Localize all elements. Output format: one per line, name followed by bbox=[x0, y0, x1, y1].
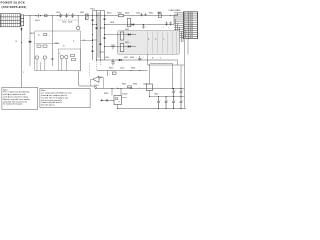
inner box bbox=[59, 49, 81, 71]
transistor Q603 bbox=[35, 56, 38, 59]
wire to bus y=40.5 bbox=[81, 40, 93, 42]
diode D601 bbox=[132, 23, 135, 25]
svg-text:liste des pièces.: liste des pièces. bbox=[41, 104, 56, 107]
resistor R630 bbox=[103, 99, 115, 101]
drops to box bottom bbox=[37, 59, 45, 70]
svg-text:+: + bbox=[160, 100, 161, 102]
diode D611 bbox=[105, 34, 137, 36]
resistors in box bbox=[37, 45, 41, 47]
svg-text:R632: R632 bbox=[133, 84, 137, 86]
fan feeder verticals bbox=[174, 13, 183, 42]
winding W2 bbox=[120, 44, 123, 52]
svg-text:Z601: Z601 bbox=[80, 12, 84, 14]
svg-text:D612: D612 bbox=[125, 42, 129, 44]
T601 winding taps bbox=[93, 25, 105, 53]
svg-text:+: + bbox=[34, 58, 35, 60]
svg-text:11: 11 bbox=[184, 33, 186, 35]
svg-text:+: + bbox=[167, 100, 168, 102]
T601 core lines bbox=[97, 12, 99, 58]
capacitor C611 bbox=[111, 45, 115, 50]
svg-text:+: + bbox=[163, 27, 164, 29]
connector hatch fill bbox=[2, 14, 20, 26]
svg-text:C603: C603 bbox=[68, 22, 72, 24]
svg-text:C601: C601 bbox=[56, 12, 60, 14]
T601 top bar bbox=[93, 10, 105, 12]
svg-text:7: 7 bbox=[184, 25, 185, 27]
optocoupler PC601 bbox=[114, 96, 122, 105]
box divider bbox=[35, 43, 59, 45]
svg-text:+: + bbox=[62, 14, 63, 16]
svg-text:D615: D615 bbox=[124, 57, 128, 59]
capacitor C606 bbox=[142, 25, 144, 29]
svg-text:1: 1 bbox=[184, 12, 185, 14]
diode D615 bbox=[119, 59, 122, 61]
label speckle bbox=[30, 12, 165, 96]
wire: earth drop from inlet bbox=[21, 26, 23, 87]
diode D612 bbox=[105, 46, 137, 48]
svg-text:POWER BLOCK: POWER BLOCK bbox=[1, 1, 26, 5]
svg-text:12: 12 bbox=[184, 35, 186, 37]
svg-text:+: + bbox=[168, 27, 169, 29]
wire: mid rail bbox=[150, 96, 185, 98]
svg-text:+: + bbox=[68, 14, 69, 16]
svg-text:R626: R626 bbox=[131, 68, 135, 70]
svg-text:(FOR SMPS-9000): (FOR SMPS-9000) bbox=[2, 5, 27, 9]
capacitor C605 bbox=[140, 13, 146, 16]
svg-text:L601: L601 bbox=[157, 13, 161, 15]
svg-text:+: + bbox=[182, 100, 183, 102]
svg-text:+: + bbox=[132, 32, 133, 34]
winding tap marks bbox=[92, 19, 106, 52]
svg-text:5: 5 bbox=[184, 21, 185, 23]
varistor Z601 bbox=[85, 14, 88, 19]
svg-text:9: 9 bbox=[184, 29, 185, 31]
svg-text:Q601: Q601 bbox=[125, 13, 129, 15]
opamp stubs bbox=[91, 78, 104, 89]
wire: rail x=52.5 bbox=[52, 16, 54, 66]
svg-text:6: 6 bbox=[184, 23, 185, 25]
capacitors C607 C608 bbox=[165, 22, 171, 26]
svg-text:R602: R602 bbox=[30, 33, 34, 35]
varistor circle bbox=[76, 26, 80, 30]
wire: left output branch bbox=[148, 55, 182, 89]
svg-text:R610: R610 bbox=[107, 13, 111, 15]
svg-text:C630: C630 bbox=[143, 84, 147, 86]
connector pin header bbox=[21, 15, 24, 26]
component S601 on top wire bbox=[158, 14, 161, 18]
capacitor C616 bbox=[138, 56, 141, 60]
cap on rail x=52.5 bbox=[51, 59, 53, 60]
svg-text:+: + bbox=[139, 87, 140, 89]
svg-text:+: + bbox=[74, 14, 75, 16]
wire: feedback loop bbox=[79, 71, 148, 87]
wires to opto bbox=[112, 89, 121, 109]
arrow on earth wire bbox=[20, 28, 22, 31]
wire: AC line top bbox=[24, 15, 178, 17]
svg-text:C602: C602 bbox=[62, 22, 66, 24]
dashed link under caps bbox=[58, 19, 79, 21]
svg-text:2: 2 bbox=[184, 14, 185, 16]
wire fan to CN601 rows bbox=[174, 13, 184, 38]
svg-text:10: 10 bbox=[184, 31, 186, 33]
dashed feedback verticals bbox=[90, 61, 101, 78]
svg-text:3: 3 bbox=[184, 17, 185, 19]
diamond node bbox=[94, 86, 96, 89]
svg-text:IC601: IC601 bbox=[98, 77, 103, 79]
capacitor C615 bbox=[111, 60, 114, 66]
control box outline bbox=[35, 31, 81, 71]
note box 1 bbox=[2, 87, 38, 109]
svg-text:R633: R633 bbox=[104, 93, 108, 95]
svg-text:+: + bbox=[117, 87, 118, 89]
small rect near loop bbox=[112, 72, 116, 75]
svg-text:+: + bbox=[143, 57, 144, 59]
wire: step right bbox=[148, 39, 189, 109]
filter capacitors row2 bbox=[157, 97, 182, 109]
opamp / TL431 bbox=[93, 76, 99, 82]
wire: rail x=28.6 bbox=[29, 16, 31, 66]
svg-text:+: + bbox=[109, 74, 110, 76]
transistor Q601 bbox=[127, 18, 130, 27]
fuse F601 bbox=[35, 14, 47, 22]
svg-text:+: + bbox=[175, 100, 176, 102]
shield box (gray) bbox=[118, 31, 180, 55]
svg-text:+: + bbox=[41, 58, 42, 60]
regulator block bbox=[146, 84, 152, 91]
connector CN101 AC inlet block bbox=[0, 14, 20, 27]
svg-text:4: 4 bbox=[184, 19, 185, 21]
transistor Q605 bbox=[60, 55, 63, 58]
capacitors C601 C602 C603 bbox=[59, 13, 73, 18]
svg-text:for replacement types.: for replacement types. bbox=[3, 103, 23, 106]
junction dots bbox=[112, 15, 182, 109]
resistor R601 bbox=[118, 15, 123, 17]
transistor Q604 bbox=[43, 56, 46, 59]
svg-text:8: 8 bbox=[184, 27, 185, 29]
svg-text:R612: R612 bbox=[149, 13, 153, 15]
filter capacitors row1 bbox=[172, 89, 182, 97]
secondary wires through shield bbox=[148, 32, 177, 55]
pin number specks bbox=[184, 12, 194, 39]
wire: ground bus bbox=[118, 108, 187, 110]
svg-text:+: + bbox=[146, 27, 147, 29]
svg-text:R631: R631 bbox=[122, 84, 126, 86]
svg-text:PC601: PC601 bbox=[122, 94, 128, 96]
connector CN601 bbox=[184, 12, 198, 39]
svg-text:D602: D602 bbox=[110, 22, 114, 24]
svg-text:R625: R625 bbox=[109, 68, 113, 70]
wire: secondary output bbox=[97, 59, 178, 61]
svg-text:D611: D611 bbox=[125, 29, 129, 31]
winding W1 bbox=[120, 32, 123, 40]
svg-text:R605: R605 bbox=[55, 43, 59, 45]
svg-text:C640: C640 bbox=[154, 94, 158, 96]
svg-text:C615: C615 bbox=[105, 57, 109, 59]
svg-text:R620: R620 bbox=[130, 57, 134, 59]
svg-text:+: + bbox=[175, 90, 176, 92]
transformer T601 windings bbox=[93, 11, 105, 61]
svg-text:CN601 MAIN: CN601 MAIN bbox=[169, 9, 181, 12]
wire: bottom bus bbox=[96, 88, 185, 90]
svg-text:+: + bbox=[49, 35, 50, 37]
svg-text:C625: C625 bbox=[120, 68, 124, 70]
svg-text:+: + bbox=[182, 90, 183, 92]
svg-text:+: + bbox=[132, 44, 133, 46]
note box 2 bbox=[40, 88, 90, 107]
svg-text:C605: C605 bbox=[136, 13, 140, 15]
svg-text:+: + bbox=[136, 57, 137, 59]
wire: second line bbox=[105, 24, 175, 26]
